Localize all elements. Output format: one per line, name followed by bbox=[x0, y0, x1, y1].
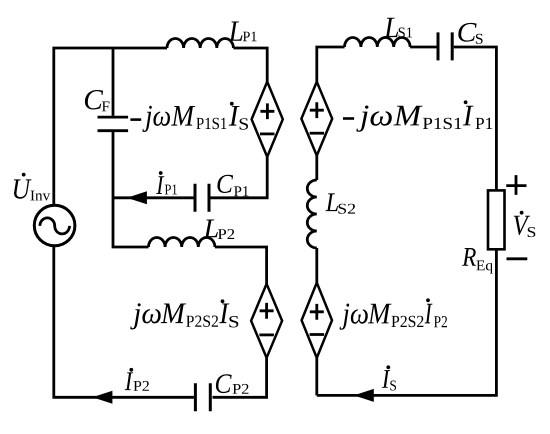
label lblB I bbox=[463, 106, 474, 126]
wire diamond3 to L_S2 bbox=[315, 156, 318, 180]
label lblC sub bbox=[186, 316, 218, 328]
label I_S main bbox=[382, 370, 391, 388]
arrow I_P1 bbox=[127, 191, 147, 204]
dot over I_P1 in label B bbox=[464, 100, 468, 104]
right circuit: left branch top bbox=[317, 47, 345, 82]
label L_P2 main bbox=[203, 220, 218, 238]
wire C_F bottom to L_P2 wire bbox=[113, 132, 149, 247]
label lblC subS bbox=[229, 316, 238, 328]
inductor L_S1 bbox=[345, 38, 411, 48]
label U_Inv sub bbox=[31, 191, 51, 201]
minus sign diamond 4 bbox=[310, 333, 325, 336]
controlled source diamond 3 bbox=[301, 82, 332, 156]
wire L_S1 to C_S bbox=[410, 46, 436, 49]
label C_P1 sub bbox=[234, 186, 248, 196]
label I_P1 sub bbox=[165, 185, 177, 195]
plus sign diamond 2 bbox=[260, 303, 274, 319]
label R_Eq sub bbox=[476, 261, 492, 274]
label lblD M bbox=[368, 304, 392, 324]
wire middle to node A bbox=[113, 196, 194, 199]
label L_P1 main bbox=[229, 22, 243, 41]
wire L_S2 to diamond 4 bbox=[315, 248, 318, 283]
label L_S1 main bbox=[384, 18, 398, 37]
label C_P2 main bbox=[216, 374, 232, 393]
label I_P2 main bbox=[125, 372, 133, 390]
label lblD jw bbox=[340, 304, 368, 330]
label lblC jw bbox=[130, 303, 161, 329]
capacitor C_S bbox=[438, 32, 452, 60]
label V_S main bbox=[514, 216, 530, 235]
plus sign diamond 1 bbox=[260, 103, 274, 119]
plus sign at V_S bbox=[506, 175, 526, 195]
wire L_P1 to diamond 1 bbox=[233, 48, 267, 82]
arrow I_P2 bbox=[92, 391, 112, 404]
wire C_S to right corner down bbox=[454, 47, 497, 190]
inductor L_P2 bbox=[149, 237, 215, 247]
label lblB sub bbox=[423, 118, 462, 130]
minus of label B bbox=[343, 117, 354, 120]
dot over I_P2 in label D bbox=[426, 298, 430, 302]
capacitor C_P2 bbox=[195, 383, 210, 411]
label L_P1 sub bbox=[243, 32, 257, 42]
minus sign diamond 1 bbox=[260, 132, 275, 135]
label L_S2 sub bbox=[338, 204, 355, 214]
label lblA M bbox=[171, 106, 195, 126]
resistor R_Eq bbox=[488, 190, 505, 249]
dot over I_S in label A bbox=[230, 102, 234, 106]
label C_P1 main bbox=[217, 175, 233, 193]
label L_S2 main bbox=[325, 193, 338, 211]
wire diamond2 bottom to bottom wire bbox=[213, 358, 267, 398]
label C_F sub bbox=[102, 102, 110, 112]
wire resistor to bottom wire bbox=[317, 249, 497, 395]
capacitor C_F bbox=[98, 117, 129, 131]
label lblD subP2 bbox=[434, 316, 447, 327]
label lblB M bbox=[393, 106, 422, 126]
label lblA jw bbox=[142, 106, 170, 132]
plus sign diamond 3 bbox=[310, 102, 324, 118]
arrow I_S bbox=[354, 389, 374, 402]
label lblC M bbox=[161, 304, 187, 324]
wire diamond1 bottom to middle wire bbox=[211, 157, 268, 198]
plus sign diamond 4 bbox=[310, 304, 324, 320]
minus sign diamond 2 bbox=[259, 333, 274, 336]
label I_P1 main bbox=[156, 176, 164, 194]
controlled source diamond 1 bbox=[252, 82, 283, 157]
wire L_P2 to diamond 2 bbox=[215, 247, 267, 284]
dot over I_S bottom right bbox=[386, 365, 390, 369]
label lblD I bbox=[425, 304, 433, 324]
controlled source diamond 4 bbox=[302, 283, 332, 358]
wire left vertical + top wire to L_P1 bbox=[54, 48, 167, 205]
dot over I_P2 bbox=[129, 368, 133, 372]
controlled source diamond 2 bbox=[251, 284, 282, 358]
label U_Inv main bbox=[14, 179, 32, 198]
label lblA sub bbox=[196, 118, 226, 130]
wire diamond4 to bottom wire bbox=[315, 358, 318, 396]
label C_S sub bbox=[476, 34, 483, 44]
label C_S main bbox=[458, 23, 476, 42]
label C_P2 sub bbox=[233, 384, 249, 394]
label L_S1 sub bbox=[399, 28, 412, 38]
dot over V_S bbox=[520, 211, 524, 215]
inductor L_S2 bbox=[307, 180, 317, 248]
dot over I_S in label C bbox=[221, 299, 225, 303]
inductor L_P1 bbox=[167, 38, 233, 48]
dot over I_P1 bbox=[159, 171, 163, 175]
label lblD sub bbox=[392, 316, 424, 328]
bottom wire to source bbox=[54, 246, 194, 397]
capacitor C_P1 bbox=[195, 184, 209, 212]
minus sign at V_S bbox=[507, 257, 528, 260]
minus sign diamond 3 bbox=[310, 132, 325, 135]
label lblA subS bbox=[240, 118, 248, 130]
label I_S sub bbox=[390, 381, 396, 391]
label C_F main bbox=[85, 90, 103, 110]
label lblA I bbox=[229, 106, 240, 126]
label L_P2 sub bbox=[218, 229, 234, 239]
minus of label A bbox=[130, 118, 141, 121]
label V_S sub bbox=[528, 227, 536, 237]
dot over U_Inv bbox=[22, 173, 26, 177]
source U_Inv circle bbox=[34, 205, 75, 246]
capacitor C_F branch top wire bbox=[112, 48, 115, 116]
label I_P2 sub bbox=[134, 381, 149, 391]
label lblC I bbox=[219, 304, 229, 324]
sine wave in source bbox=[40, 218, 70, 234]
label lblB jw bbox=[356, 106, 392, 132]
label R_Eq main bbox=[462, 248, 476, 266]
label lblB subP1 bbox=[476, 118, 493, 129]
